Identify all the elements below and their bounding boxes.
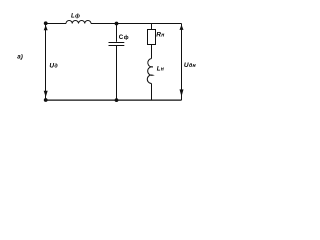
node capacitor top bbox=[115, 22, 119, 26]
node bottom-left bbox=[44, 98, 48, 102]
wire bottom bbox=[46, 99, 182, 101]
svg-text:Lн: Lн bbox=[157, 67, 164, 73]
wire top-right segment bbox=[91, 23, 182, 25]
node top-left bbox=[44, 21, 48, 25]
svg-text:а): а) bbox=[17, 54, 23, 61]
wire between R-n and L-n bbox=[151, 45, 153, 59]
inductor L-n bbox=[147, 59, 153, 84]
inductor L-f bbox=[66, 21, 91, 24]
capacitor C-f wire lower bbox=[116, 46, 118, 100]
svg-text:Rн: Rн bbox=[156, 32, 165, 39]
wire left vertical (Ud arrow line) bbox=[45, 24, 47, 101]
node capacitor bottom bbox=[115, 98, 119, 102]
wire top-left segment bbox=[46, 23, 67, 25]
resistor R-n body bbox=[148, 30, 156, 45]
capacitor C-f wire upper bbox=[116, 24, 118, 42]
inductor L-n wire lower bbox=[151, 84, 153, 101]
arrow Ud up bbox=[44, 25, 48, 30]
capacitor C-f plates bbox=[109, 43, 125, 46]
svg-text:Lф: Lф bbox=[71, 12, 80, 19]
resistor R-n wire upper bbox=[151, 24, 153, 30]
arrow Ud down bbox=[44, 91, 48, 97]
arrow Udn down bbox=[180, 89, 184, 96]
svg-text:Uд: Uд bbox=[49, 63, 58, 70]
svg-text:Cф: Cф bbox=[119, 34, 129, 41]
svg-text:Uдн: Uдн bbox=[184, 62, 197, 69]
arrow Udn up bbox=[180, 25, 184, 30]
wire right vertical (Udn arrow line) bbox=[181, 24, 183, 101]
